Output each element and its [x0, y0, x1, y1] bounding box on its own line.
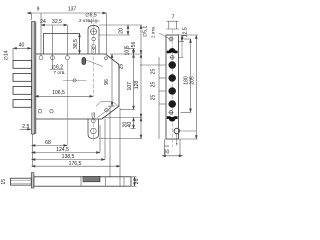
svg-text:40: 40 — [127, 122, 133, 128]
svg-text:25: 25 — [151, 82, 157, 88]
svg-text:138,5: 138,5 — [62, 154, 75, 160]
svg-text:7: 7 — [172, 15, 175, 21]
svg-text:12,5: 12,5 — [183, 27, 189, 37]
svg-text:20: 20 — [119, 28, 125, 34]
svg-text:10,5: 10,5 — [124, 45, 130, 55]
svg-text:40: 40 — [19, 42, 25, 48]
svg-text:25: 25 — [151, 95, 157, 101]
svg-text:отв.: отв. — [165, 145, 170, 148]
svg-text:68: 68 — [45, 140, 51, 146]
svg-text:176,5: 176,5 — [69, 161, 82, 167]
svg-text:2,5: 2,5 — [22, 124, 29, 130]
svg-text:2 отв.: 2 отв. — [150, 26, 155, 38]
svg-text:9: 9 — [37, 7, 40, 13]
svg-text:32,5: 32,5 — [52, 19, 62, 25]
svg-text:96: 96 — [104, 79, 110, 85]
svg-text:205: 205 — [190, 76, 196, 85]
svg-text:25: 25 — [119, 64, 125, 70]
svg-text:107: 107 — [127, 82, 133, 91]
svg-text:137: 137 — [68, 7, 77, 13]
svg-text:124,5: 124,5 — [56, 147, 69, 153]
svg-text:24: 24 — [40, 19, 46, 25]
svg-text:15: 15 — [1, 179, 7, 185]
svg-text:106,5: 106,5 — [52, 90, 65, 96]
svg-text:38,5: 38,5 — [73, 39, 79, 49]
svg-text:30: 30 — [164, 150, 170, 156]
svg-text:2 отв.: 2 отв. — [79, 18, 91, 23]
svg-text:7 отв.: 7 отв. — [53, 70, 65, 75]
svg-text:∅5,1: ∅5,1 — [143, 26, 149, 38]
svg-text:25: 25 — [151, 69, 157, 75]
svg-text:20: 20 — [134, 178, 140, 184]
svg-text:128: 128 — [134, 81, 140, 90]
svg-text:56: 56 — [131, 42, 137, 48]
svg-text:∅14: ∅14 — [3, 50, 9, 60]
